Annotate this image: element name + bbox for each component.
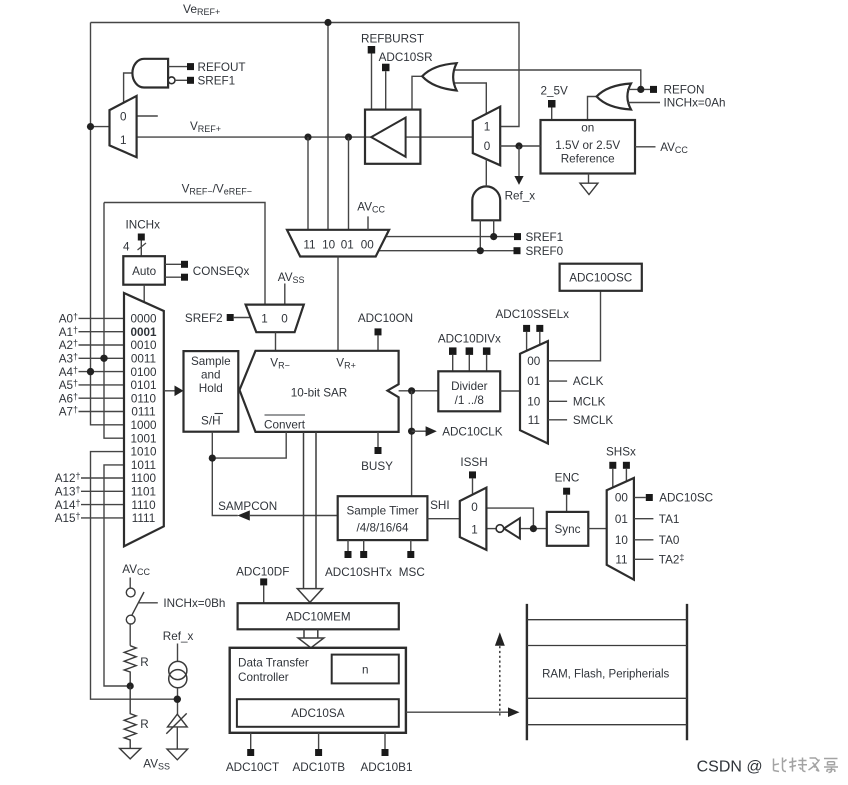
wire inverter to mux input 1: [486, 528, 496, 530]
svg-text:ADC10SC: ADC10SC: [659, 492, 713, 505]
svg-text:1: 1: [484, 120, 491, 133]
svg-text:Ref_x: Ref_x: [505, 190, 536, 203]
svg-text:0100: 0100: [130, 366, 157, 379]
arrowhead ADC10CLK: [426, 426, 437, 436]
wire diode to ground: [176, 727, 178, 749]
svg-text:Reference: Reference: [561, 153, 615, 166]
svg-text:SHSx: SHSx: [606, 445, 636, 458]
svg-text:ADC10OSC: ADC10OSC: [569, 271, 632, 284]
wire ADC10DF stub: [263, 585, 265, 603]
pin square REFBURST: [368, 46, 376, 54]
svg-text:01: 01: [341, 238, 354, 251]
pin square REFON: [650, 86, 657, 93]
watermark CJK glyph mock 2: [789, 758, 807, 772]
wire left VeREF+ rail (upper): [91, 23, 125, 425]
bus arrow SAR to ADC10MEM: [303, 432, 305, 589]
wire TA2 row: [634, 558, 654, 560]
wire divider to clock mux: [500, 390, 520, 392]
svg-text:0000: 0000: [130, 313, 157, 326]
wire REFOUT input stub: [168, 66, 187, 68]
wire ADC10SC row: [634, 497, 646, 499]
wire SREF0 row: [379, 250, 514, 252]
Sample Timer box U18: [338, 496, 428, 540]
wire SREF2 to mux U12: [234, 317, 251, 319]
node dot ADC10CLK branch: [408, 428, 415, 435]
mux U12 trapezoid (SREF2 1/0): [246, 305, 304, 333]
svg-text:0: 0: [120, 111, 127, 124]
wire OR U3 bottom input to mux U5 select: [453, 83, 487, 114]
wire ref mux row 01 vertical: [348, 137, 350, 230]
arrowhead to memory: [508, 707, 520, 717]
dashed arrow up: [499, 646, 501, 716]
svg-text:Data Transfer: Data Transfer: [238, 656, 309, 669]
svg-text:10: 10: [322, 238, 336, 251]
svg-text:ADC10SHTx: ADC10SHTx: [325, 566, 392, 579]
Data Transfer Controller box U24: [230, 648, 406, 733]
wire reference box to ground: [588, 174, 590, 184]
node dot R divider junction: [127, 682, 134, 689]
pin squares SHSx: [609, 462, 616, 469]
wire INCHx bus to Auto: [140, 241, 142, 257]
node dot SREF0: [477, 247, 484, 254]
wire ref mux output VR+: [337, 257, 339, 351]
wire SREF1 row: [385, 236, 514, 238]
wire AVSS into mux U12: [284, 284, 286, 305]
arrowhead SAMPCON pointing left: [237, 510, 249, 520]
svg-text:SREF1: SREF1: [198, 75, 236, 88]
wire OR U3 top input from REFON line: [453, 70, 641, 89]
wire ADC10CLK stub: [412, 430, 426, 432]
wire switch to resistor R1: [129, 624, 131, 646]
svg-text:1000: 1000: [130, 419, 157, 432]
wire Ref_x to current source: [177, 644, 179, 662]
Sync box U21: [547, 512, 589, 546]
svg-text:RAM, Flash, Peripherials: RAM, Flash, Peripherials: [542, 668, 669, 680]
wire row 1010 to lower rail: [91, 452, 178, 700]
svg-text:0: 0: [484, 140, 491, 153]
svg-text:SHI: SHI: [430, 499, 449, 512]
wires ADC10SSELx stubs: [526, 332, 528, 351]
svg-text:0: 0: [281, 312, 288, 325]
node dot SREF1: [490, 233, 497, 240]
wire VeREF+ top rail: [91, 23, 520, 127]
ADC10MEM box U23: [238, 603, 399, 629]
svg-text:00: 00: [361, 238, 375, 251]
wire Convert to S+H chain: [212, 432, 286, 458]
reference box U7: [541, 120, 636, 174]
svg-text:0001: 0001: [130, 326, 157, 339]
wire TA1 row: [634, 518, 654, 520]
current source I1 (two circles): [169, 661, 187, 679]
AND gate U8 (pointing up): [472, 186, 500, 220]
svg-text:MSC: MSC: [399, 566, 425, 579]
svg-text:INCHx: INCHx: [126, 218, 161, 231]
wires sample timer bottom stubs: [347, 540, 349, 551]
svg-text:SMCLK: SMCLK: [573, 414, 613, 427]
watermark CJK glyph mock 1: [774, 758, 787, 772]
svg-text:0: 0: [471, 501, 478, 514]
svg-text:on: on: [581, 122, 594, 135]
svg-text:ADC10DF: ADC10DF: [236, 565, 289, 578]
svg-text:ADC10MEM: ADC10MEM: [286, 611, 351, 624]
pin square SREF0 right: [514, 247, 521, 254]
ground symbol below reference: [580, 183, 598, 194]
svg-text:1: 1: [261, 312, 268, 325]
ground symbol below diode: [167, 749, 188, 760]
wire VREF- line: [104, 203, 265, 305]
wires SHSx stubs: [612, 469, 614, 488]
wires ADC10DIVx stubs: [452, 355, 454, 371]
svg-text:REFBURST: REFBURST: [361, 33, 424, 46]
node dot divider branch: [408, 387, 415, 394]
wire SREF1 input stub: [175, 79, 187, 81]
svg-text:ADC10B1: ADC10B1: [361, 761, 413, 774]
node dot Ref_x branch: [515, 142, 522, 149]
input channel wires A12-A15: [81, 477, 124, 479]
wire mux U2 stub row 0: [137, 115, 158, 117]
ground symbol below R2: [120, 748, 141, 759]
svg-text:10: 10: [527, 395, 541, 408]
svg-text:1: 1: [120, 134, 127, 147]
pin square REFOUT: [187, 63, 194, 70]
svg-text:1100: 1100: [131, 472, 157, 485]
svg-text:ADC10CT: ADC10CT: [226, 761, 279, 774]
svg-text:10-bit SAR: 10-bit SAR: [291, 386, 348, 399]
pin square SREF1 right: [514, 233, 521, 240]
svg-text:1101: 1101: [131, 486, 156, 499]
svg-text:Hold: Hold: [199, 382, 223, 395]
wire TA0 row: [634, 539, 654, 541]
wire SMCLK row: [548, 419, 567, 421]
pin square SREF1: [187, 77, 194, 84]
pin square ENC: [563, 488, 570, 495]
pin square INCHx: [138, 234, 145, 241]
overline over H of S/H: [215, 413, 224, 415]
Auto box U10: [123, 256, 165, 285]
svg-text:ADC10CLK: ADC10CLK: [442, 426, 503, 439]
diode D1 (crossed): [168, 714, 188, 727]
wire MCLK row: [548, 400, 567, 402]
mux U5 trapezoid 1/0: [473, 107, 500, 166]
pin square ADC10SC: [646, 494, 653, 501]
svg-text:SAMPCON: SAMPCON: [218, 500, 277, 513]
svg-text:Sync: Sync: [555, 523, 581, 536]
svg-text:ENC: ENC: [555, 471, 580, 484]
svg-text:Auto: Auto: [132, 265, 157, 278]
wire Auto to input mux: [143, 285, 145, 303]
wire VeREF+ branch to reference mux row 10: [327, 23, 329, 230]
switch control line: [139, 602, 158, 604]
switch terminal circle top: [126, 588, 135, 597]
svg-text:01: 01: [615, 513, 628, 526]
wire CONSEQx stub 1: [165, 263, 181, 265]
mux U2 trapezoid 0/1: [110, 96, 137, 157]
svg-text:MCLK: MCLK: [573, 395, 606, 408]
wire CONSEQx stub 2: [165, 276, 181, 278]
wire ADC10ON to SAR: [377, 335, 379, 350]
svg-text:TA1: TA1: [659, 513, 680, 526]
OR gate U3 (mirrored, output left): [422, 63, 456, 90]
svg-text:/1 ../8: /1 ../8: [455, 394, 484, 407]
buffer triangle U4: [371, 118, 405, 157]
arrowhead Ref_x down: [514, 176, 523, 185]
OR gate U6 (mirrored, output left): [597, 84, 631, 110]
node dot VeREF+ rail at A4 row: [87, 368, 94, 375]
wire AND U8 output to mux U5: [485, 159, 487, 186]
svg-text:INCHx=0Ah: INCHx=0Ah: [664, 97, 726, 110]
wire DTC output to memory: [406, 711, 509, 713]
wire ADC10SR to buffer: [385, 71, 387, 109]
pin squares ADC10SSELx: [523, 325, 530, 332]
n box: [332, 655, 399, 684]
memory stack RAM Flash Peripherials: [526, 604, 528, 740]
wire OR U6 output to reference box: [588, 97, 597, 121]
ADC10OSC box U17: [560, 264, 642, 291]
svg-text:00: 00: [615, 492, 629, 505]
svg-text:1001: 1001: [130, 432, 156, 445]
svg-text:ADC10SA: ADC10SA: [291, 707, 344, 720]
bus arrow ADC10MEM to DTC: [303, 629, 305, 638]
node dot VeREF+ top branch: [324, 19, 331, 26]
wire REFBURST to buffer: [371, 54, 373, 110]
wire BUSY stub: [377, 432, 379, 447]
resistor R1 zigzag: [124, 646, 136, 686]
svg-text:0101: 0101: [130, 379, 156, 392]
watermark CJK glyph mock 3: [809, 758, 820, 772]
svg-text:SREF2: SREF2: [185, 312, 223, 325]
svg-text:/4/8/16/64: /4/8/16/64: [357, 522, 409, 535]
wire row 1011 to lower rail: [104, 465, 130, 686]
wire S+H bottom / SAMPCON vertical: [212, 432, 238, 516]
svg-text:0010: 0010: [130, 339, 157, 352]
inverter U20 (pointing left): [504, 518, 520, 538]
wire mux U2 input 1 from left rail: [91, 126, 110, 128]
svg-text:REFOUT: REFOUT: [198, 61, 246, 74]
Divider box U15: [438, 371, 500, 411]
node dot REFON: [637, 86, 644, 93]
wire ENC stub: [566, 495, 568, 512]
pin square BUSY: [375, 447, 382, 454]
wire AND U8 input A to SREF0 row: [479, 220, 481, 250]
watermark CJK glyph mock 4: [824, 759, 838, 773]
node dot convert junction: [209, 455, 216, 462]
wire ADC10CLK vertical: [411, 391, 413, 496]
svg-text:R: R: [140, 718, 148, 731]
svg-text:Controller: Controller: [238, 671, 289, 684]
pin squares ADC10SHTx MSC: [345, 551, 352, 558]
wire AND U8 input B to SREF1 row: [493, 220, 495, 236]
svg-text:ADC10TB: ADC10TB: [292, 761, 345, 774]
svg-text:1: 1: [471, 524, 478, 537]
svg-text:2_5V: 2_5V: [541, 85, 569, 98]
wire AVCC to switch: [129, 578, 131, 589]
wire SAR comparator to divider: [399, 390, 439, 392]
svg-text:ADC10ON: ADC10ON: [358, 312, 413, 325]
input mux U11 (channel select): [124, 293, 164, 546]
ADC10SA box: [237, 699, 399, 727]
svg-text:0011: 0011: [131, 353, 156, 366]
node dot sync output: [530, 525, 537, 532]
pin square CONSEQx 1: [181, 261, 188, 268]
wire input mux to S+H with arrowhead: [164, 390, 175, 392]
switch terminal circle bottom: [126, 615, 135, 624]
svg-text:1011: 1011: [131, 459, 156, 472]
wire sync input from SHSx mux: [588, 528, 606, 530]
svg-text:TA0: TA0: [659, 534, 680, 547]
Sample and Hold box U13: [184, 351, 239, 432]
pin squares ADC10CT ADC10TB ADC10B1: [247, 749, 254, 756]
wire mux U2 select input from NAND: [124, 73, 133, 103]
wire REFON row: [627, 88, 650, 90]
wire ref mux row 11 vertical: [307, 137, 309, 230]
svg-text:1110: 1110: [131, 499, 156, 512]
bus width tick: [138, 243, 147, 250]
svg-text:1.5V or 2.5V: 1.5V or 2.5V: [555, 139, 620, 152]
node dot VREF+ to ref mux row 11: [304, 134, 311, 141]
wires DTC bottom stubs: [250, 733, 252, 749]
svg-text:CONSEQx: CONSEQx: [193, 265, 250, 278]
svg-text:11: 11: [303, 238, 315, 251]
svg-text:INCHx=0Bh: INCHx=0Bh: [163, 597, 225, 610]
pin square SREF2: [227, 314, 234, 321]
wire Ref_x arrow shaft: [518, 146, 520, 177]
svg-text:0110: 0110: [131, 392, 157, 405]
svg-text:10: 10: [615, 534, 629, 547]
wire AVCC output of reference: [635, 146, 656, 148]
svg-text:ADC10DIVx: ADC10DIVx: [438, 332, 501, 345]
svg-text:01: 01: [527, 375, 540, 388]
bubble of inverter: [496, 525, 504, 533]
svg-text:11: 11: [615, 554, 627, 567]
svg-text:ISSH: ISSH: [460, 456, 487, 469]
pin square CONSEQx 2: [181, 274, 188, 281]
wire ISSH mux input 0 bypass: [486, 508, 533, 528]
wire AVCC stub into ref mux row 00: [367, 216, 369, 229]
bubble on SREF1 input of U1: [168, 77, 175, 84]
node dot VREF- rail at A3 row: [100, 355, 107, 362]
node dot VeREF+ rail bottom junction: [174, 696, 181, 703]
wire sync output to inverter: [520, 528, 547, 530]
wire mux U5 output 0 row to reference box: [500, 145, 540, 147]
svg-text:Ref_x: Ref_x: [163, 630, 194, 643]
overline over Convert: [265, 414, 306, 416]
svg-text:BUSY: BUSY: [361, 460, 393, 473]
wire current source to diode: [177, 688, 179, 714]
pin square ADC10SR: [382, 64, 390, 71]
wire ISSH stub: [472, 478, 474, 494]
svg-text:1111: 1111: [132, 512, 155, 525]
svg-text:REFON: REFON: [664, 83, 705, 96]
wire mux U12 output VR-: [275, 332, 277, 351]
svg-text:ACLK: ACLK: [573, 375, 604, 388]
svg-text:SREF1: SREF1: [526, 231, 564, 244]
svg-text:ADC10SSELx: ADC10SSELx: [496, 308, 570, 321]
svg-text:n: n: [362, 663, 369, 676]
clock mux U16: [520, 341, 548, 443]
slash across diode: [166, 713, 186, 733]
wire SHI output row: [427, 518, 459, 520]
svg-text:ADC10SR: ADC10SR: [379, 51, 433, 64]
wire VREF+ line: [137, 136, 473, 138]
svg-text:CSDN @: CSDN @: [697, 759, 763, 776]
10-bit SAR box U14: [240, 351, 399, 432]
svg-text:Divider: Divider: [451, 380, 487, 393]
wire left VREF- rail (upper): [104, 203, 124, 439]
svg-text:and: and: [201, 368, 221, 381]
node dot VREF+ to ref mux row 01: [345, 134, 352, 141]
wire INCHx=0Ah input: [628, 102, 661, 104]
svg-text:00: 00: [527, 355, 541, 368]
svg-text:11: 11: [528, 414, 540, 427]
pin square ADC10ON: [375, 328, 382, 335]
svg-text:4: 4: [123, 241, 130, 254]
wire SAMPCON from sample timer: [249, 515, 338, 517]
resistor R2 zigzag: [124, 686, 136, 748]
pin squares ADC10DIVx: [449, 347, 457, 355]
reference mux U9 (11 10 01 00): [287, 230, 389, 257]
wire 2_5V to reference box: [551, 108, 553, 121]
pin square ADC10DF: [260, 578, 267, 585]
svg-text:0111: 0111: [131, 406, 155, 419]
svg-text:S/H: S/H: [201, 414, 220, 427]
node dot rail to mux U2: [87, 123, 94, 130]
buffer box U4: [365, 110, 420, 164]
svg-text:1010: 1010: [130, 446, 157, 459]
arrowhead into S+H: [175, 386, 184, 397]
ISSH mux U19: [460, 488, 487, 550]
svg-text:Convert: Convert: [264, 419, 306, 432]
NAND gate U1 (mirrored, inputs right): [132, 59, 168, 88]
wire ADC10OSC to mux row 00: [548, 291, 601, 361]
switch arm: [132, 592, 144, 615]
svg-text:Sample Timer: Sample Timer: [346, 504, 418, 517]
wire OR U3 output to buffer top: [412, 76, 422, 109]
wire ACLK row: [548, 380, 567, 382]
svg-text:Sample: Sample: [191, 355, 231, 368]
pin square 2_5V: [548, 100, 556, 108]
svg-text:R: R: [140, 656, 148, 669]
svg-text:SREF0: SREF0: [526, 245, 564, 258]
input channel wires A0-A7: [79, 317, 125, 319]
SHSx mux U22: [607, 478, 634, 580]
pin square ISSH: [469, 471, 476, 478]
